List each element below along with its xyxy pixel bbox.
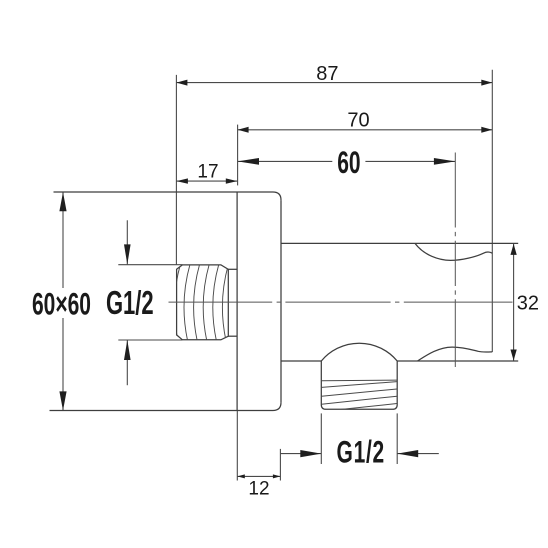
arrowhead bottom G1/2 left-pointing (397, 450, 418, 457)
outlet thread hatch lines (322, 380, 398, 411)
outlet right side (393, 361, 398, 409)
wire: left extension line of 87/17 at nipple left (175, 75, 177, 265)
wall plate left face (236, 192, 238, 411)
centerline: main horizontal axis (169, 153, 513, 368)
arrowhead 17 left (176, 178, 188, 183)
arrowhead 12 left (237, 474, 245, 478)
arrowhead bottom G1/2 right-pointing (300, 450, 321, 457)
wire: dimension line 17 (176, 180, 237, 182)
wire: 12 right extension (279, 449, 281, 481)
wire: dimension line 12 (237, 475, 280, 477)
arrowhead 60x60 down (59, 391, 66, 410)
body top edge with 32 extension (281, 242, 518, 244)
holder cradle top curve (415, 243, 492, 260)
centerline: cradle vertical axis (454, 153, 456, 368)
outlet dome (321, 343, 397, 361)
nipple neck top line (228, 268, 237, 270)
svg-text:17: 17 (197, 162, 218, 183)
holder cradle bottom curve (418, 347, 493, 361)
threaded nipple nut outline (177, 265, 229, 340)
nipple neck bottom line (228, 335, 237, 337)
svg-text:32: 32 (517, 293, 539, 315)
arrowhead G1/2 down (top arrow) (124, 244, 131, 264)
svg-text:G1/2: G1/2 (337, 435, 385, 470)
svg-text:G1/2: G1/2 (106, 285, 154, 321)
wall plate right face (280, 200, 282, 402)
wire: G1/2 bottom arrow tail (126, 340, 128, 385)
wire: dimension line 60 left segment (238, 160, 333, 162)
wire: extension line above plate left face (237, 125, 239, 186)
wire: bottom G1/2 dimension line left segment (281, 453, 322, 455)
arrowhead 87 right (481, 80, 492, 86)
arrowhead 87 left (176, 80, 187, 86)
arrowhead G1/2 up (bottom arrow) (124, 340, 131, 360)
wall plate top edge with 60x60 extension (54, 192, 282, 200)
wire: dimension line 70 (238, 129, 493, 131)
arrowhead 32 up (510, 244, 516, 255)
arrowhead 70 right (481, 127, 492, 133)
wire: G1/2 bottom extension line (118, 339, 182, 341)
body bottom edge right of outlet with 32 extension (397, 360, 518, 362)
svg-text:87: 87 (316, 63, 338, 85)
wire: G1/2 top extension line (118, 264, 182, 266)
wire: right extension line / body right face (491, 70, 493, 352)
body bottom edge left of outlet (281, 360, 321, 362)
nipple thread hatch lines (174, 264, 228, 341)
wire: 12 left extension below plate (236, 411, 238, 481)
svg-text:12: 12 (248, 479, 269, 500)
arrowhead 60 left (238, 158, 259, 165)
arrowhead 17 right (226, 178, 238, 183)
wall plate bottom edge with 60x60 extension (50, 402, 282, 410)
wire: dimension line 32 (513, 243, 515, 361)
wire: dimension line 60 right segment (365, 160, 455, 162)
svg-text:60: 60 (337, 145, 360, 180)
arrowhead 32 down (510, 350, 516, 361)
wire: dimension line 60x60 lower segment (62, 318, 64, 410)
wire: bottom G1/2 dimension line right segment (397, 453, 439, 455)
wire: bottom G1/2 left extension (320, 413, 322, 464)
arrowhead 60 right (434, 158, 455, 165)
outlet bottom edge (326, 408, 393, 410)
arrowhead 60x60 up (59, 192, 66, 211)
wire: dimension line 60x60 upper segment (62, 192, 64, 288)
wire: G1/2 top arrow tail (126, 220, 128, 264)
arrowhead 12 right (273, 474, 281, 478)
wire: dimension line 87 (176, 82, 492, 84)
outlet left side (321, 361, 326, 409)
wire: bottom G1/2 right extension (396, 413, 398, 464)
arrowhead 70 left (238, 127, 249, 133)
svg-text:70: 70 (347, 109, 369, 131)
svg-text:60×60: 60×60 (32, 286, 91, 321)
